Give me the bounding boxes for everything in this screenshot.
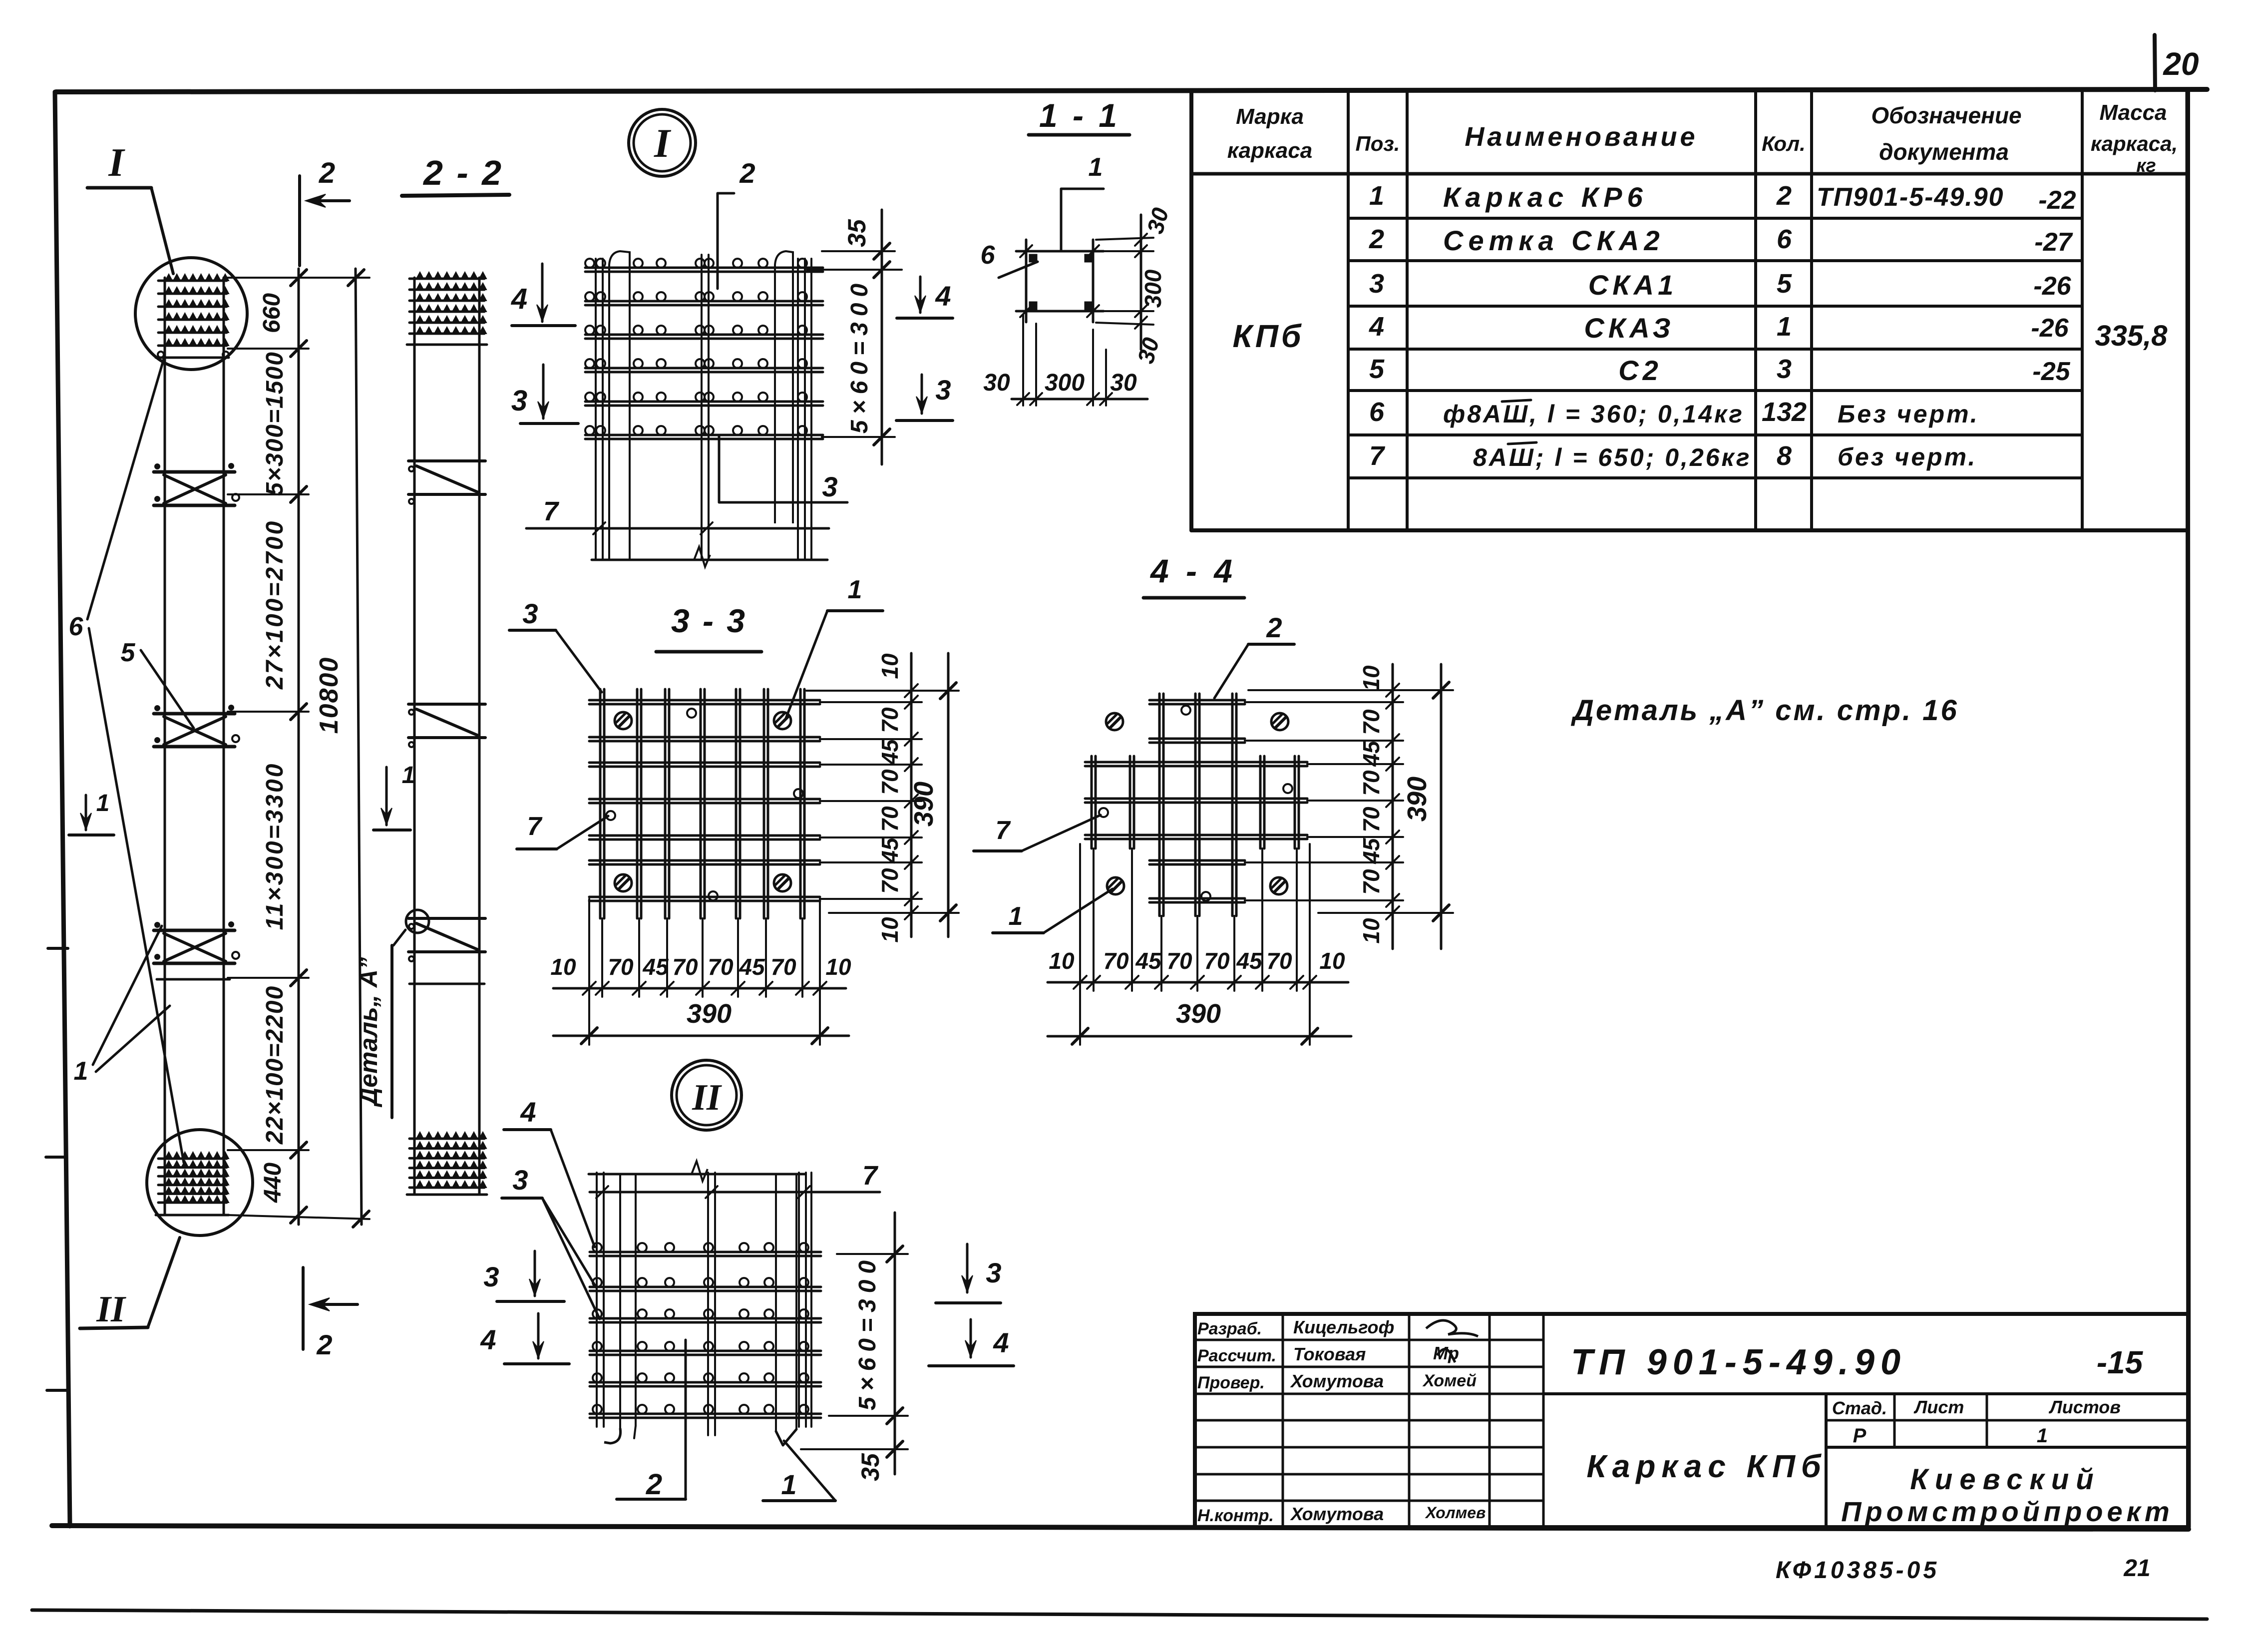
svg-text:Марка: Марка [1236,104,1304,129]
svg-text:440: 440 [260,1163,286,1203]
svg-text:Рассчит.: Рассчит. [1197,1346,1276,1365]
svg-text:КФ10385-05: КФ10385-05 [1776,1557,1939,1584]
left border fold mark 2 [46,1156,65,1159]
svg-text:70: 70 [877,707,903,733]
svg-text:Кол.: Кол. [1762,132,1806,155]
section 3-3 vertical bars [599,689,602,918]
svg-text:35: 35 [843,219,871,247]
extension lines detail II [837,1253,908,1255]
section mark 3 right of detail I [921,375,923,413]
column 2 splice 2 [408,703,485,706]
svg-text:10: 10 [1358,665,1384,691]
svg-text:45: 45 [1236,948,1263,974]
section 4-4 bottom dimension line 1 [1048,981,1348,984]
svg-text:Хомутова: Хомутова [1290,1504,1384,1524]
column 2 splice 3 [408,917,485,920]
svg-text:10: 10 [877,653,903,679]
section mark 4 right of detail I [919,277,922,313]
svg-text:70: 70 [877,868,903,894]
svg-text:6: 6 [981,241,996,270]
svg-text:10: 10 [1358,918,1384,944]
section mark 4 right of detail II [970,1319,972,1357]
svg-text:кг: кг [2136,155,2156,176]
detail circle II around bottom mesh [147,1130,253,1236]
svg-text:70: 70 [1358,709,1384,735]
title block signature grid [1282,1314,1284,1527]
svg-text:5×300=1500: 5×300=1500 [262,351,288,496]
detail A marker circle [406,910,429,933]
svg-text:Стад.: Стад. [1832,1398,1887,1418]
svg-text:2 - 2: 2 - 2 [422,153,503,192]
svg-text:Промстройпроект: Промстройпроект [1841,1496,2174,1527]
detail I left vertical wire pair [595,259,597,560]
svg-text:4: 4 [511,283,527,315]
svg-text:4 - 4: 4 - 4 [1149,552,1236,589]
svg-text:Холмев: Холмев [1425,1504,1486,1522]
column 2 bottom mesh zone [409,1138,484,1140]
svg-text:10: 10 [877,917,903,943]
svg-text:II: II [692,1077,722,1118]
svg-text:1: 1 [2037,1425,2048,1447]
section 4-4 vertical arm cross wires [1149,699,1245,702]
section mark 2 bottom [302,1267,305,1349]
svg-text:3: 3 [1369,269,1384,299]
svg-text:Без черт.: Без черт. [1838,400,1979,428]
svg-text:5×60=300: 5×60=300 [846,278,873,433]
svg-text:Р: Р [1853,1425,1867,1447]
svg-text:45: 45 [739,954,765,980]
title block doc number band line [1543,1392,2188,1395]
svg-text:Токовая: Токовая [1293,1344,1366,1364]
column 1 splice X 2 [154,712,235,716]
svg-text:70: 70 [1358,807,1384,832]
detail II middle vertical wire pair [707,1173,709,1435]
svg-text:2: 2 [739,157,755,189]
svg-text:3: 3 [522,598,538,629]
detail II right vertical wire pair [798,1173,800,1427]
svg-text:КПб: КПб [1233,318,1304,354]
section 4-4 bottom dimension line 390 [1048,1035,1351,1038]
svg-text:8: 8 [1777,441,1792,471]
svg-text:10: 10 [1319,948,1345,974]
section 1-1 stirrup square [1016,250,1104,253]
svg-text:21: 21 [2123,1555,2150,1582]
svg-text:Сетка СКА2: Сетка СКА2 [1443,225,1665,256]
svg-text:1: 1 [74,1057,88,1086]
svg-text:2: 2 [1266,612,1282,643]
title block name divider [1825,1394,1828,1527]
section mark 3 right of detail II [966,1244,969,1292]
svg-text:Деталь„ А”: Деталь„ А” [355,957,382,1108]
detail I horizontal mesh rows with wire circles [585,267,823,269]
svg-text:3: 3 [935,374,951,406]
svg-text:3 - 3: 3 - 3 [671,602,747,639]
section 4-4 bottom extension lines [1160,916,1162,991]
parts table grid [1189,91,1193,530]
svg-text:3: 3 [483,1261,499,1292]
section mark 1 right arrow [385,767,388,825]
svg-text:1: 1 [781,1469,796,1500]
svg-text:Разраб.: Разраб. [1197,1319,1262,1338]
detail II wire 7 line and label [590,1191,880,1194]
detail I bottom break line [592,559,827,561]
detail I middle vertical wire pair [701,255,703,560]
section 4-4 right dimension line 1 [1392,664,1394,949]
svg-text:ТП 901-5-49.90: ТП 901-5-49.90 [1571,1342,1906,1382]
bottom page scan line [32,1610,2207,1619]
svg-text:-27: -27 [2034,228,2073,257]
svg-text:390: 390 [687,999,732,1029]
svg-text:45: 45 [877,739,903,766]
title block outer box [1195,1314,2188,1527]
svg-text:Н.контр.: Н.контр. [1197,1506,1274,1525]
svg-text:-22: -22 [2038,186,2076,215]
detail II top break line [589,1173,805,1176]
svg-text:I: I [108,141,125,185]
section 1-1 corner bars [1030,255,1037,262]
column 1 bottom mesh zone (detail II) [158,1158,227,1160]
svg-text:8АШ; l = 650; 0,26кг: 8АШ; l = 650; 0,26кг [1473,443,1752,471]
svg-text:1: 1 [402,762,415,789]
svg-text:-26: -26 [2031,314,2069,343]
detail I right dimension line [881,210,883,464]
svg-text:2: 2 [1369,224,1384,254]
left border fold mark 1 [48,947,68,950]
overall dimension line 10800 [356,269,362,1225]
section 3-3 horizontal bars [589,699,820,702]
svg-text:7: 7 [996,816,1011,845]
svg-text:70: 70 [708,954,734,980]
section 1-1 right dimension line [1140,215,1142,350]
svg-text:Хомутова: Хомутова [1290,1371,1384,1391]
svg-text:70: 70 [1358,770,1384,796]
section 4-4 longitudinal bars hatched [1106,713,1123,730]
title block stad list grid [1826,1419,2188,1422]
svg-text:Провер.: Провер. [1197,1373,1265,1392]
detail I wide flat bar right [775,251,793,523]
svg-text:45: 45 [1135,948,1162,974]
svg-text:1: 1 [1089,153,1103,182]
section 4-4 horizontal bars [1085,761,1307,764]
detail I bottom wire 7 line [526,527,829,530]
detail II horizontal mesh rows with wire circles [590,1251,821,1253]
detail A leader and rotated label [393,930,405,945]
svg-text:6: 6 [1777,224,1792,254]
svg-text:4: 4 [480,1324,496,1355]
svg-text:5: 5 [1777,269,1792,299]
svg-text:27×100=2700: 27×100=2700 [262,519,288,690]
drawing frame border [56,89,2207,92]
column 1 splice X 3 [154,929,235,932]
column 1 splice X 1 [154,470,235,474]
svg-text:70: 70 [1266,948,1292,974]
section 3-3 bottom dimension line 1 [553,987,846,990]
section 3-3 longitudinal bars hatched [615,712,632,729]
svg-text:ф8АШ, l = 360; 0,14кг: ф8АШ, l = 360; 0,14кг [1443,400,1744,428]
svg-text:390: 390 [909,782,939,826]
column 2 splice 1 [408,459,485,462]
svg-text:4: 4 [993,1327,1009,1358]
svg-text:I: I [654,120,672,166]
svg-text:Обозначение: Обозначение [1871,102,2021,128]
svg-text:22×100=2200: 22×100=2200 [262,985,288,1145]
svg-text:-15: -15 [2097,1344,2144,1380]
svg-text:Киевский: Киевский [1910,1463,2100,1496]
detail II left vertical wire pair [596,1173,598,1427]
svg-text:660: 660 [259,293,285,333]
svg-text:Каркас КР6: Каркас КР6 [1443,181,1648,213]
svg-text:70: 70 [1166,948,1192,974]
signature squiggles [1426,1320,1478,1336]
svg-text:Масса: Масса [2099,100,2167,125]
detail I right vertical wire pair [797,259,799,560]
section 4-4 wire dots [1181,706,1190,715]
svg-text:7: 7 [527,812,543,841]
svg-text:70: 70 [877,806,903,832]
svg-text:ТП901-5-49.90: ТП901-5-49.90 [1817,183,2004,212]
detail I wide flat bar left [609,251,630,560]
svg-text:Хомей: Хомей [1422,1371,1477,1390]
detail II wide flat bar right with tip [775,1174,777,1431]
svg-text:45: 45 [877,837,903,864]
section 4-4 horizontal arm cross wires [1091,756,1093,848]
svg-text:10: 10 [550,954,576,980]
section 3-3 right extension lines [820,701,922,703]
section 4-4 vertical bars [1158,694,1161,916]
svg-text:70: 70 [1204,948,1230,974]
section 3-3 bottom extension lines [601,918,603,997]
svg-text:3: 3 [1777,354,1792,384]
section 4-4 right dimension line 390 [1440,664,1443,949]
section 1-1 bottom dimension line [1012,398,1147,401]
section mark 1 left arrow [85,795,87,830]
svg-text:Лист: Лист [1913,1397,1964,1417]
svg-text:1: 1 [96,790,110,817]
svg-text:7: 7 [1369,441,1386,471]
svg-text:документа: документа [1879,139,2009,165]
svg-text:Каркас КПб: Каркас КПб [1586,1448,1827,1484]
section 3-3 right dimension line 390 [947,653,950,937]
svg-text:1: 1 [1777,312,1792,342]
svg-text:30: 30 [983,370,1010,396]
svg-text:70: 70 [877,769,903,795]
svg-text:3: 3 [986,1257,1001,1288]
svg-text:2: 2 [319,157,335,189]
svg-text:1: 1 [848,575,862,604]
svg-text:70: 70 [672,954,698,980]
view circle I [629,109,696,176]
svg-text:30: 30 [1110,370,1137,396]
svg-text:10: 10 [1049,948,1075,974]
svg-text:Деталь „А” см. стр. 16: Деталь „А” см. стр. 16 [1570,694,1959,727]
svg-text:300: 300 [1140,269,1166,308]
svg-text:4: 4 [520,1096,536,1128]
svg-text:300: 300 [1045,370,1085,396]
svg-text:-26: -26 [2033,272,2071,301]
left border fold mark 3 [47,1389,67,1392]
svg-text:каркаса: каркаса [1227,138,1312,163]
svg-text:70: 70 [1358,869,1384,895]
svg-text:без черт.: без черт. [1838,443,1977,471]
svg-text:3: 3 [511,385,527,417]
svg-text:3: 3 [822,471,837,502]
section 4-4 right extension lines [1245,701,1403,703]
svg-text:335,8: 335,8 [2095,320,2168,352]
svg-text:5: 5 [121,638,136,667]
section 3-3 wire dots [687,709,696,718]
section mark 2 top [298,176,301,266]
svg-text:70: 70 [608,954,634,980]
extension lines detail I [822,250,895,252]
column 2 top mesh zone [409,278,484,280]
svg-text:каркаса,: каркаса, [2091,132,2178,155]
svg-text:390: 390 [1402,777,1432,822]
svg-text:20: 20 [2163,46,2199,82]
column 1 top mesh zone (detail I) [158,280,227,282]
extension lines column 1 dims [228,348,309,350]
svg-text:Листов: Листов [2048,1397,2121,1417]
svg-text:35: 35 [856,1453,884,1481]
column view 2 vertical edges [413,278,416,1195]
svg-text:1: 1 [1369,181,1384,211]
svg-text:6: 6 [69,612,84,641]
detail II right dimension line [894,1213,896,1474]
svg-text:390: 390 [1176,999,1221,1029]
svg-text:Кицельгоф: Кицельгоф [1293,1317,1394,1337]
svg-text:СКА1: СКА1 [1588,269,1677,301]
svg-text:-25: -25 [2032,357,2070,386]
svg-text:4: 4 [1369,312,1384,342]
svg-text:6: 6 [1369,397,1385,427]
page number 20 tick line [2155,35,2155,90]
svg-text:2: 2 [316,1329,332,1360]
svg-text:1: 1 [1009,902,1023,931]
svg-text:7: 7 [543,496,560,526]
svg-text:II: II [96,1289,126,1330]
svg-text:С2: С2 [1618,355,1662,386]
svg-text:Наименование: Наименование [1465,122,1698,152]
svg-text:10: 10 [825,954,851,980]
svg-text:5: 5 [1369,354,1385,384]
svg-text:70: 70 [770,954,796,980]
section 3-3 right dimension line 1 [910,653,913,937]
section 3-3 bottom dimension line 390 [553,1035,849,1037]
view circle II [672,1060,742,1130]
svg-text:45: 45 [642,954,669,980]
svg-text:10800: 10800 [315,657,344,734]
svg-text:2: 2 [1776,181,1792,211]
svg-text:1 - 1: 1 - 1 [1039,97,1120,134]
column view 1 vertical edges [164,278,166,1215]
svg-text:11×300=3300: 11×300=3300 [262,762,288,930]
svg-text:45: 45 [1358,837,1384,864]
dimension chain column 1 [298,269,300,1225]
svg-text:Поз.: Поз. [1356,132,1400,155]
detail II wide flat bar left with hook [619,1174,621,1428]
detail circle I around top mesh [135,258,247,370]
svg-text:70: 70 [1103,948,1129,974]
svg-text:132: 132 [1762,397,1807,427]
svg-text:7: 7 [862,1161,879,1191]
svg-text:2: 2 [646,1468,662,1501]
svg-text:4: 4 [935,280,951,312]
svg-text:5×60=300: 5×60=300 [854,1254,881,1410]
svg-text:СКАЗ: СКАЗ [1584,312,1674,344]
svg-text:45: 45 [1358,740,1384,767]
svg-text:3: 3 [512,1164,528,1196]
